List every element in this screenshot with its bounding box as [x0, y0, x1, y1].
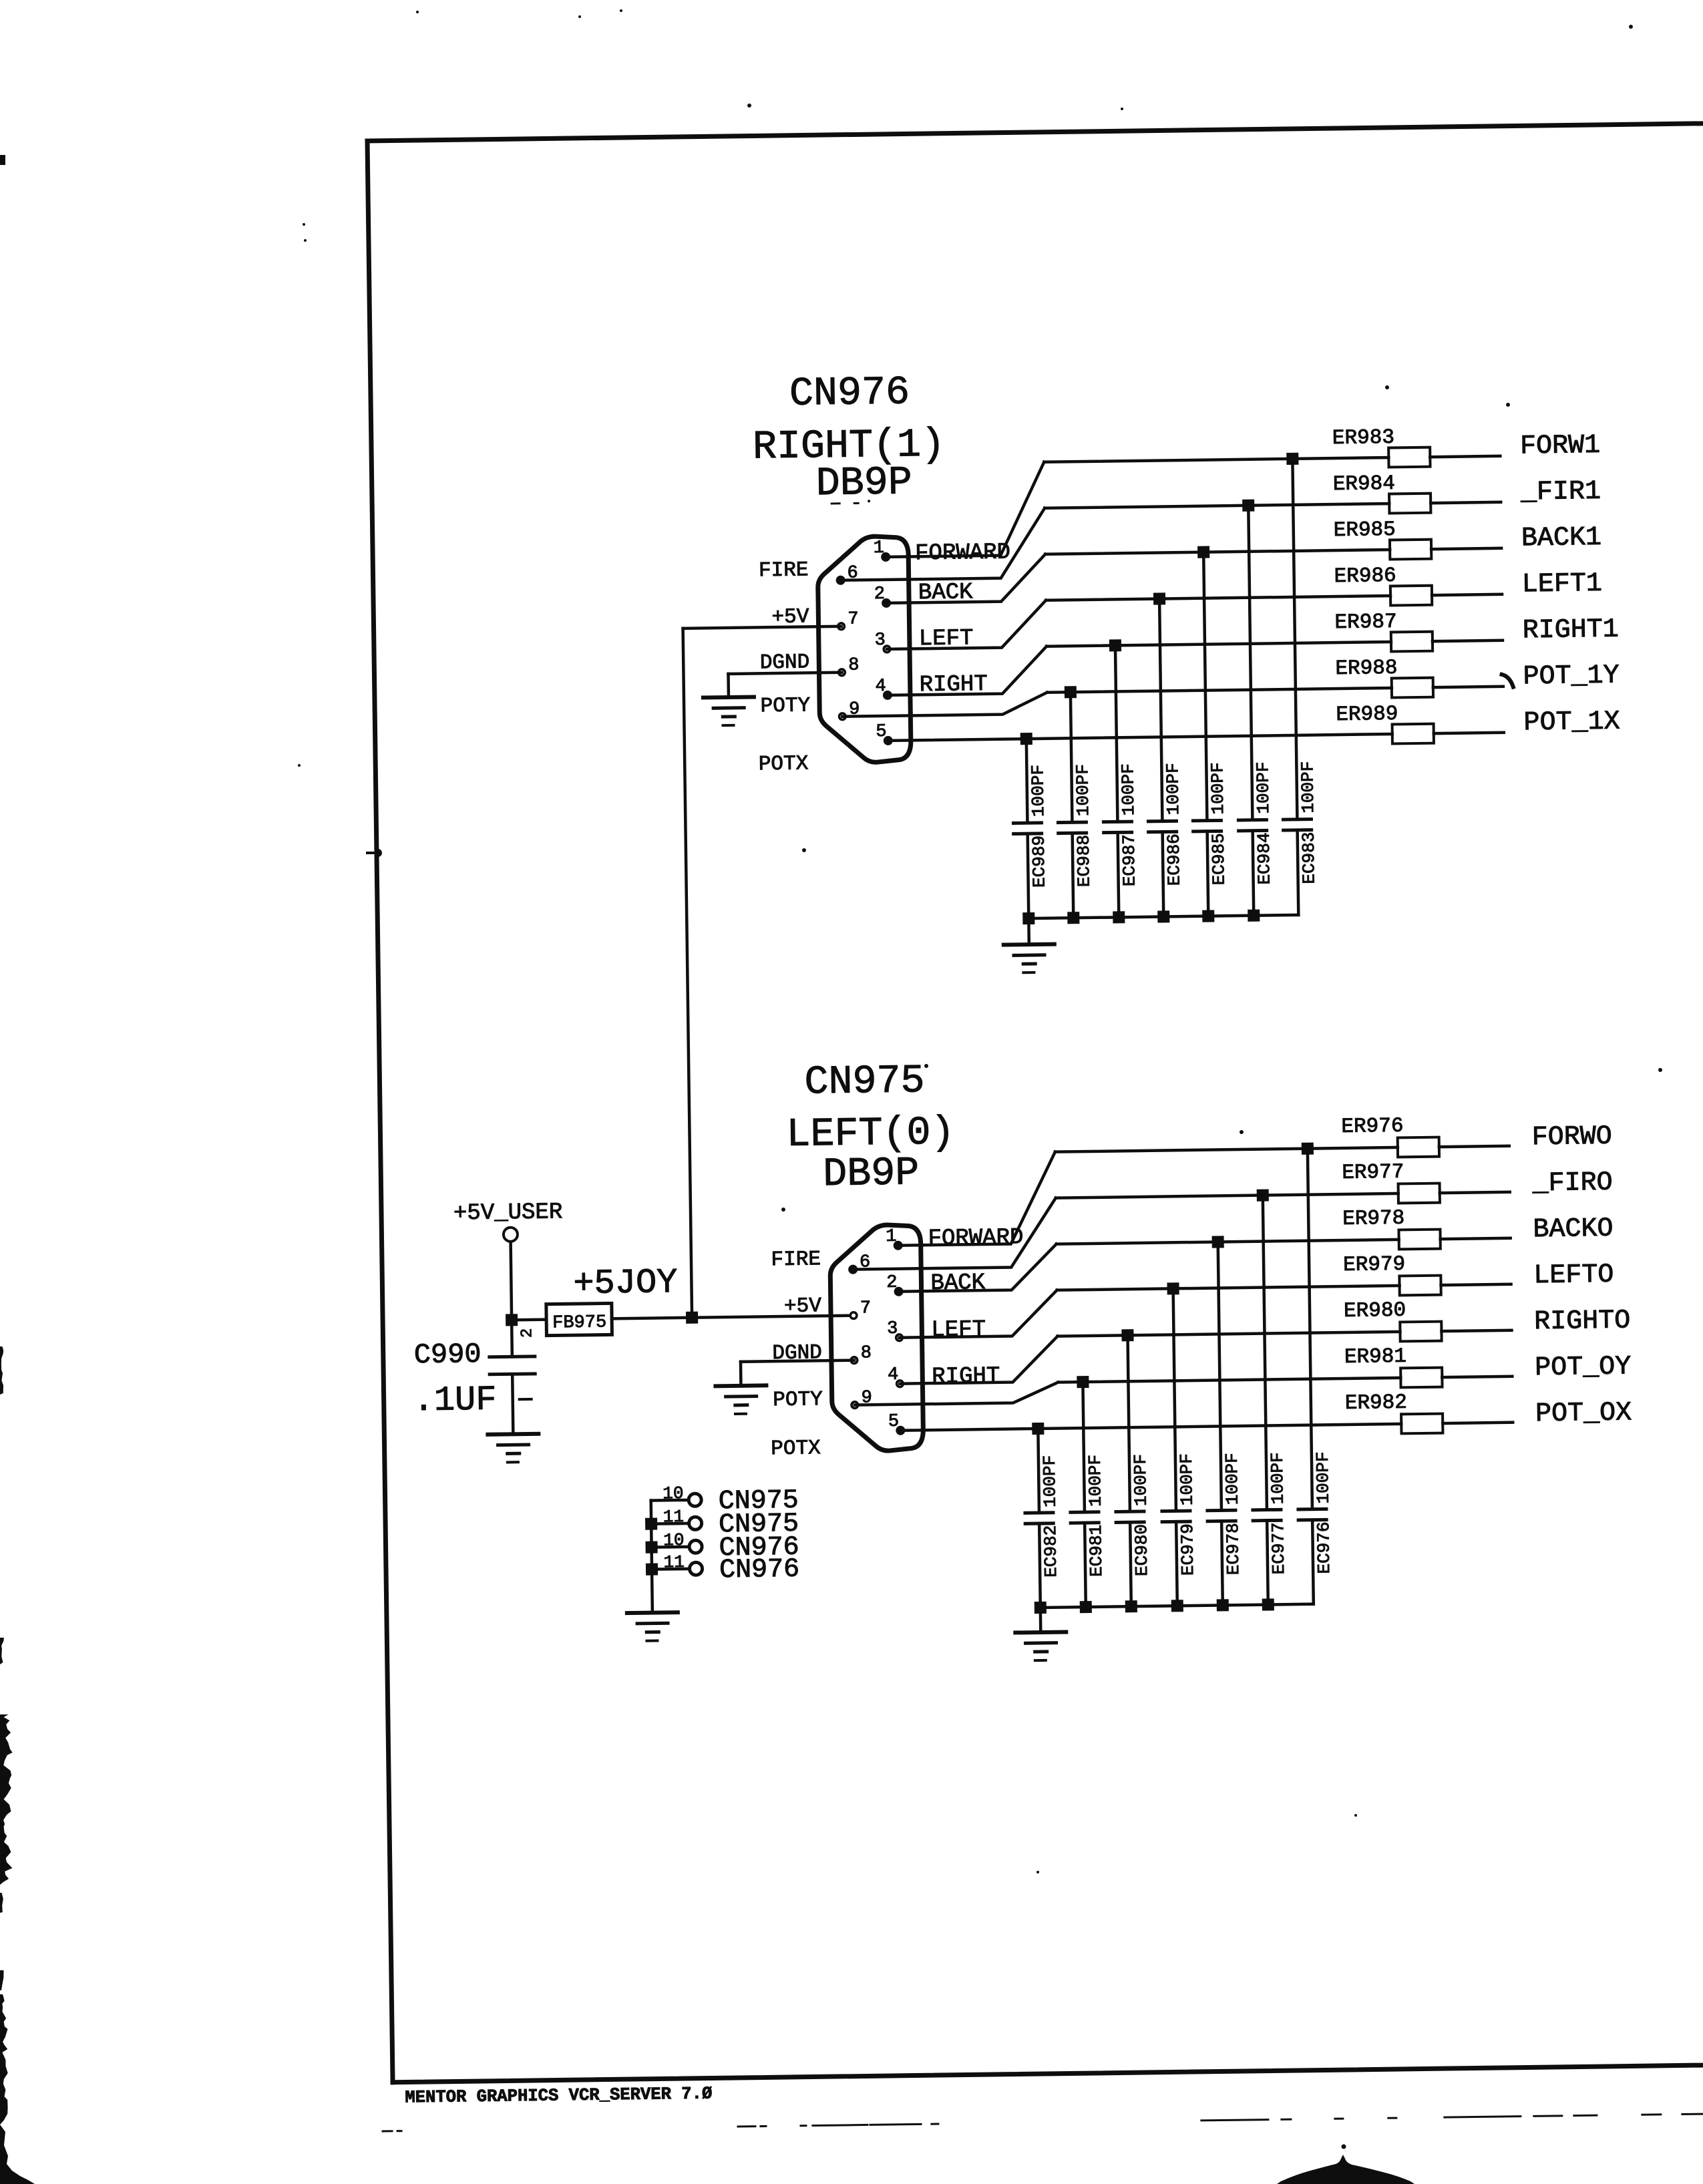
wire CN976 pin 1 to ER983 row [884, 462, 1045, 557]
svg-text:2: 2 [874, 584, 886, 604]
pin 6 CN975 [848, 1252, 871, 1274]
resistor ER983 [1332, 425, 1501, 468]
wire ER981 row [1058, 1378, 1400, 1383]
resistor ER977 [1342, 1159, 1510, 1204]
junction node ER978 row [1212, 1236, 1224, 1248]
wire CN975 pin 8 DGND [741, 1360, 854, 1386]
pin label FIRE CN975 [771, 1248, 821, 1272]
svg-text:100PF: 100PF [1118, 763, 1139, 815]
svg-text:EC989: EC989 [1029, 836, 1050, 888]
stray pen mark near POT_1Y [1502, 675, 1513, 687]
wire CN975 pin 5 to ER982 row [900, 1424, 1401, 1431]
svg-text:POTY: POTY [773, 1388, 823, 1412]
wire CN976 pin 5 to ER989 row [888, 734, 1392, 741]
pin 5 CN975 [888, 1412, 906, 1435]
svg-text:POTY: POTY [760, 694, 810, 718]
svg-text:100PF: 100PF [1085, 1455, 1106, 1507]
scan artifact bottom-left corner [0, 2125, 35, 2184]
svg-text:100PF: 100PF [1177, 1453, 1197, 1505]
net label LEFT1 [1522, 569, 1603, 600]
net label _FIR1 [1520, 477, 1601, 508]
svg-text:FORWARD: FORWARD [915, 540, 1010, 566]
net label FORW1 [1520, 431, 1601, 462]
pin label FIRE CN976 [759, 558, 809, 582]
svg-text:FORWARD: FORWARD [928, 1225, 1023, 1252]
pin 7 CN975 [850, 1298, 871, 1318]
svg-text:FORW1: FORW1 [1520, 431, 1601, 462]
svg-text:5: 5 [888, 1412, 900, 1432]
svg-text:4: 4 [875, 677, 886, 697]
svg-text:RIGHT1: RIGHT1 [1522, 615, 1619, 647]
pin label POTX CN975 [771, 1437, 821, 1461]
svg-text:5: 5 [876, 722, 887, 742]
pin 11 CN975 shield [651, 1505, 799, 1541]
svg-text:ER986: ER986 [1334, 564, 1396, 588]
svg-text:EC978: EC978 [1223, 1523, 1244, 1575]
sheet border frame [367, 124, 1703, 2082]
junction on ground bus [1262, 1598, 1274, 1610]
svg-text:ER985: ER985 [1334, 518, 1396, 542]
wire shield pins bus [651, 1501, 652, 1613]
wire ER986 row [1046, 596, 1390, 600]
svg-text:8: 8 [861, 1343, 872, 1363]
svg-text:EC988: EC988 [1074, 835, 1095, 887]
junction on ground bus [1113, 911, 1125, 923]
wire ER988 row [1047, 688, 1392, 693]
svg-text:EC982: EC982 [1040, 1525, 1061, 1578]
wire ER985 row [1045, 550, 1390, 554]
wire CN975 pin 3 to ER979 row [899, 1290, 1058, 1338]
wire CN976 pin 4 to ER987 row [887, 647, 1047, 695]
wire CN976 pin 3 to ER986 row [886, 600, 1047, 649]
svg-text:100PF: 100PF [1163, 763, 1183, 815]
net label BACKO [1533, 1214, 1614, 1246]
svg-text:100PF: 100PF [1222, 1453, 1243, 1505]
junction on ground bus [1080, 1601, 1092, 1613]
capacitor EC980 100PF [1114, 1335, 1153, 1607]
net label LEFT CN975 [931, 1317, 986, 1343]
pin 11 CN976 shield [652, 1551, 800, 1587]
ground C990 [488, 1434, 539, 1463]
svg-text:POTX: POTX [759, 752, 809, 776]
capacitor EC976 100PF [1294, 1148, 1335, 1604]
ground shield pins [627, 1612, 679, 1641]
wire CN975 pin 1 to ER976 row [897, 1152, 1057, 1246]
svg-text:CN976: CN976 [789, 370, 910, 417]
wire capacitor ground bus CN976 bank [1028, 915, 1298, 918]
svg-text:100PF: 100PF [1313, 1451, 1334, 1503]
net label BACK1 [1521, 523, 1602, 554]
svg-text:11: 11 [663, 1552, 685, 1572]
resistor ER981 [1344, 1344, 1513, 1389]
svg-text:LEFT(0): LEFT(0) [786, 1111, 955, 1158]
wire FB975 to CN975 pin 7 [612, 1316, 854, 1319]
net label BACK CN976 [918, 580, 974, 606]
wire +5V to CN976 pin 7 [683, 626, 841, 628]
scan artifact left edge streak 3 [0, 1638, 4, 1664]
junction on ground bus [1202, 910, 1214, 922]
junction on ground bus [1171, 1600, 1183, 1612]
pin 2 CN975 [886, 1273, 904, 1296]
svg-text:2: 2 [518, 1328, 536, 1338]
net label RIGHT1 [1522, 615, 1619, 647]
scan artifact dashed line [383, 2113, 1703, 2131]
resistor ER980 [1344, 1298, 1512, 1342]
net label POT_OY [1535, 1352, 1632, 1383]
resistor ER985 [1334, 517, 1502, 560]
svg-text:DB9P: DB9P [823, 1151, 920, 1198]
capacitor EC981 100PF [1069, 1382, 1107, 1608]
svg-text:POT_1X: POT_1X [1523, 707, 1620, 739]
pin label +5V CN976 [771, 605, 809, 629]
svg-text:FIRE: FIRE [759, 558, 809, 582]
svg-text:EC986: EC986 [1164, 834, 1185, 886]
svg-text:ER983: ER983 [1332, 426, 1394, 450]
capacitor EC984 100PF [1234, 505, 1275, 916]
svg-text:100PF: 100PF [1253, 761, 1274, 813]
scan artifact left edge streak 6 [0, 1994, 8, 2125]
ground DGND CN975 [715, 1385, 767, 1414]
pin 4 CN975 [888, 1365, 903, 1387]
svg-text:EC987: EC987 [1119, 834, 1140, 886]
capacitor EC986 100PF [1145, 598, 1185, 917]
junction node ER987 row [1109, 639, 1121, 651]
svg-text:RIGHT: RIGHT [932, 1364, 1000, 1390]
capacitor EC989 100PF [1012, 739, 1051, 919]
wire CN976 pin 9 to ER988 row [842, 693, 1047, 717]
svg-text:LEFTO: LEFTO [1533, 1260, 1614, 1292]
net label FORWARD CN975 [928, 1225, 1023, 1252]
capacitor EC988 100PF [1057, 692, 1095, 918]
svg-text:EC981: EC981 [1086, 1525, 1107, 1577]
pin 9 CN975 [851, 1388, 872, 1408]
svg-text:100PF: 100PF [1131, 1454, 1151, 1506]
resistor ER984 [1333, 471, 1501, 514]
svg-text:ER976: ER976 [1341, 1115, 1403, 1139]
svg-text:EC985: EC985 [1209, 833, 1229, 885]
pin 8 CN975 [851, 1343, 872, 1363]
wire ER983 row [1044, 458, 1388, 462]
pin 10 CN976 shield [651, 1529, 799, 1565]
svg-text:RIGHTO: RIGHTO [1534, 1306, 1631, 1337]
resistor ER986 [1334, 563, 1502, 606]
junction node ER977 row [1257, 1189, 1269, 1201]
mark on left border [366, 849, 382, 857]
scan artifact left edge blob [0, 1714, 13, 1885]
svg-text:CN975: CN975 [804, 1059, 925, 1105]
capacitor EC985 100PF [1189, 552, 1229, 916]
junction node ER986 row [1153, 592, 1165, 604]
junction node +5JOY [686, 1312, 698, 1324]
svg-text:_FIR1: _FIR1 [1520, 477, 1601, 508]
ground CN975 capacitor bank [1015, 1607, 1067, 1660]
net label FORWO [1531, 1122, 1612, 1153]
svg-text:3: 3 [874, 630, 886, 651]
net label +5JOY [573, 1263, 678, 1304]
pin number 2 FB975 [518, 1328, 536, 1338]
resistor ER976 [1341, 1113, 1509, 1158]
svg-text:BACK: BACK [930, 1270, 986, 1296]
svg-text:POT_1Y: POT_1Y [1523, 661, 1620, 693]
resistor ER979 [1343, 1252, 1511, 1296]
resistor ER978 [1342, 1206, 1511, 1250]
connector CN976 title [752, 370, 946, 508]
wire +5JOY riser [683, 628, 693, 1318]
svg-text:8: 8 [848, 655, 860, 675]
net label BACK CN975 [930, 1270, 986, 1296]
net label POT_OX [1535, 1398, 1632, 1429]
wire CN976 pin 8 DGND [728, 673, 841, 697]
net label POT_1X [1523, 707, 1620, 739]
node +5V_USER terminal [453, 1200, 563, 1242]
capacitor EC983 100PF [1278, 458, 1320, 915]
svg-text:ER980: ER980 [1344, 1299, 1406, 1323]
title MENTOR GRAPHICS VCR_SERVER 7.0 [405, 2083, 712, 2107]
net label FORWARD CN976 [915, 540, 1010, 566]
svg-text:BACK1: BACK1 [1521, 523, 1602, 554]
pin label DGND CN975 [772, 1341, 822, 1365]
junction shield bus [646, 1563, 658, 1575]
svg-text:CN976: CN976 [719, 1555, 800, 1586]
junction node ER984 row [1242, 500, 1254, 512]
capacitor EC977 100PF [1249, 1195, 1290, 1605]
scan artifact left edge streak 1 [0, 155, 5, 165]
pin 3 CN976 [874, 630, 890, 653]
pin 7 CN976 [837, 609, 858, 629]
svg-text:1: 1 [886, 1227, 897, 1247]
pin label POTY CN975 [773, 1388, 823, 1412]
svg-text:+5V_USER: +5V_USER [453, 1200, 563, 1226]
svg-text:ER978: ER978 [1342, 1207, 1404, 1231]
svg-text:ER977: ER977 [1342, 1161, 1404, 1185]
net label _FIRO [1531, 1168, 1613, 1200]
junction node ER982 row [1032, 1423, 1044, 1435]
svg-text:EC984: EC984 [1254, 832, 1275, 884]
svg-text:100PF: 100PF [1073, 764, 1093, 816]
resistor ER988 [1335, 655, 1503, 699]
junction node ER985 row [1197, 546, 1209, 558]
wire ER984 row [1045, 504, 1389, 508]
ferrite bead FB975 [546, 1303, 612, 1335]
pin 3 CN975 [887, 1319, 902, 1341]
pin 5 CN976 [876, 722, 893, 745]
svg-text:EC976: EC976 [1314, 1521, 1334, 1574]
svg-text:10: 10 [663, 1483, 684, 1503]
svg-text:FORWO: FORWO [1531, 1122, 1612, 1153]
capacitor EC982 100PF [1024, 1429, 1062, 1608]
wire +5V_USER junction to FB975 [512, 1318, 546, 1321]
svg-text:7: 7 [847, 609, 859, 629]
pin 6 CN976 [835, 563, 858, 584]
pin label DGND CN976 [760, 651, 810, 675]
svg-text:FIRE: FIRE [771, 1248, 821, 1272]
svg-text:+5V: +5V [784, 1294, 822, 1318]
wire CN975 pin 6 to ER977 row [852, 1198, 1057, 1270]
wire capacitor ground bus CN975 bank [1040, 1604, 1314, 1608]
svg-text:2: 2 [886, 1273, 898, 1293]
svg-text:.1UF: .1UF [413, 1381, 497, 1421]
svg-text:ER979: ER979 [1343, 1253, 1405, 1277]
pin 8 CN976 [838, 655, 859, 675]
svg-text:_FIRO: _FIRO [1531, 1168, 1613, 1200]
connector CN975 title [785, 1059, 956, 1198]
connector CN975 outline DB9P [829, 1224, 923, 1451]
capacitor EC978 100PF [1204, 1242, 1244, 1606]
svg-text:ER984: ER984 [1333, 472, 1395, 496]
svg-text:100PF: 100PF [1207, 762, 1228, 814]
ground CN976 capacitor bank [1003, 918, 1055, 973]
wire CN975 pin 2 to ER978 row [898, 1244, 1057, 1292]
junction node ER983 row [1286, 453, 1298, 465]
svg-text:3: 3 [887, 1319, 898, 1339]
junction on ground bus [1157, 910, 1169, 922]
svg-text:BACKO: BACKO [1533, 1214, 1614, 1246]
junction node ER979 row [1167, 1282, 1179, 1294]
resistor ER987 [1334, 609, 1503, 653]
scan artifact bottom blob [1277, 2145, 1414, 2184]
junction shield bus [645, 1517, 657, 1529]
resistor ER982 [1345, 1390, 1513, 1435]
svg-text:DB9P: DB9P [815, 460, 912, 507]
junction on ground bus [1034, 1602, 1047, 1614]
scan artifact left edge streak 2 [0, 1346, 3, 1395]
wire ER976 row [1055, 1147, 1398, 1152]
pin 1 CN975 [886, 1227, 903, 1250]
pin 2 CN976 [874, 584, 892, 608]
svg-text:C990: C990 [413, 1338, 481, 1371]
junction node ER989 row [1020, 733, 1032, 745]
net label RIGHT CN976 [919, 672, 988, 698]
pin 1 CN976 [874, 538, 891, 562]
wire CN975 pin 9 to ER981 row [854, 1383, 1058, 1405]
pin label +5V CN975 [784, 1294, 822, 1318]
svg-text:FB975: FB975 [552, 1312, 606, 1333]
svg-text:10: 10 [663, 1530, 685, 1550]
wire CN976 pin 6 to ER984 row [839, 508, 1045, 580]
resistor ER989 [1336, 701, 1504, 745]
junction on ground bus [1022, 912, 1034, 924]
junction node ER981 row [1077, 1376, 1089, 1388]
svg-text:ER988: ER988 [1335, 657, 1397, 681]
junction on ground bus [1067, 912, 1079, 924]
wire CN976 pin 2 to ER985 row [886, 554, 1046, 603]
junction node ER976 row [1302, 1143, 1314, 1155]
svg-text:DGND: DGND [760, 651, 810, 675]
svg-text:EC977: EC977 [1268, 1522, 1289, 1574]
svg-text:100PF: 100PF [1268, 1452, 1288, 1504]
capacitor EC979 100PF [1159, 1288, 1199, 1606]
connector CN976 outline DB9P [817, 536, 911, 763]
wire ER987 row [1047, 642, 1391, 647]
svg-text:100PF: 100PF [1028, 765, 1049, 817]
wire ER979 row [1057, 1286, 1400, 1290]
net label RIGHTO [1534, 1306, 1631, 1337]
svg-text:ER987: ER987 [1334, 610, 1396, 634]
svg-text:11: 11 [663, 1507, 685, 1527]
scan artifact left edge streak 5 [0, 1970, 4, 1990]
net label LEFTO [1533, 1260, 1614, 1292]
ground DGND CN976 [703, 697, 755, 725]
wire CN975 pin 4 to ER980 row [900, 1336, 1059, 1384]
junction shield bus [645, 1541, 657, 1553]
capacitor EC987 100PF [1101, 645, 1140, 918]
capacitor C990 [489, 1320, 536, 1435]
junction node ER980 row [1121, 1329, 1133, 1341]
junction on ground bus [1248, 910, 1260, 922]
net label POT_1Y [1523, 661, 1620, 693]
svg-text:ER982: ER982 [1345, 1391, 1407, 1415]
scan specks [298, 9, 1662, 1873]
junction node +5V_USER [506, 1314, 518, 1326]
pin 9 CN976 [839, 699, 860, 719]
wire ER980 row [1058, 1332, 1400, 1336]
svg-text:ER981: ER981 [1344, 1345, 1406, 1369]
svg-text:EC979: EC979 [1177, 1523, 1198, 1576]
svg-text:EC983: EC983 [1299, 832, 1320, 884]
svg-text:LEFT: LEFT [931, 1317, 986, 1343]
pin 10 CN975 shield [650, 1482, 799, 1518]
svg-text:POTX: POTX [771, 1437, 821, 1461]
junction node ER988 row [1065, 686, 1077, 698]
svg-text:4: 4 [888, 1365, 899, 1385]
wire ER977 row [1056, 1194, 1398, 1198]
capacitor C990 label [412, 1338, 496, 1421]
scan artifact left edge streak 4 [0, 1893, 3, 1913]
svg-text:+5JOY: +5JOY [573, 1263, 678, 1304]
svg-text:ER989: ER989 [1336, 703, 1398, 727]
svg-text:1: 1 [874, 538, 885, 558]
svg-text:POT_OY: POT_OY [1535, 1352, 1632, 1383]
wire +5V_USER to junction [511, 1242, 512, 1320]
net label RIGHT CN975 [932, 1364, 1000, 1390]
net label LEFT CN976 [919, 626, 974, 652]
pin label POTX CN976 [759, 752, 809, 776]
svg-text:POT_OX: POT_OX [1535, 1398, 1632, 1429]
svg-text:7: 7 [860, 1298, 872, 1318]
svg-text:LEFT1: LEFT1 [1522, 569, 1603, 600]
junction on ground bus [1217, 1599, 1229, 1611]
wire ER978 row [1057, 1240, 1399, 1244]
junction on ground bus [1125, 1600, 1137, 1612]
pin label POTY CN976 [760, 694, 810, 718]
svg-text:100PF: 100PF [1298, 761, 1318, 813]
pin 4 CN976 [875, 677, 892, 700]
svg-text:EC980: EC980 [1131, 1524, 1152, 1576]
svg-text:MENTOR GRAPHICS VCR_SERVER 7.Ø: MENTOR GRAPHICS VCR_SERVER 7.Ø [405, 2083, 712, 2107]
scan specks under DB9P [831, 500, 870, 504]
svg-text:100PF: 100PF [1040, 1455, 1061, 1507]
